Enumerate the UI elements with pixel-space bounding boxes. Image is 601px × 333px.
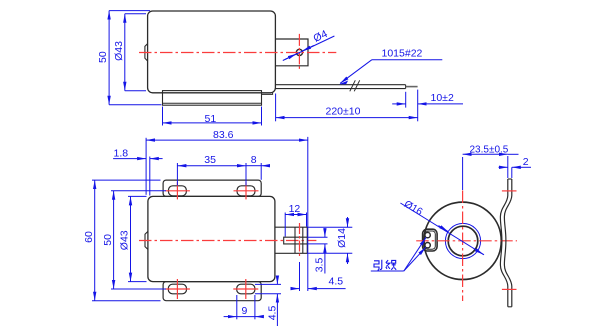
dimension 4.5 (flange slot) (255, 283, 281, 285)
plunger rear bump (top view) (145, 44, 148, 61)
inner hole circle (448, 226, 478, 256)
dimension 10+-2 (405, 92, 407, 108)
svg-text:8: 8 (251, 154, 257, 166)
bottom mounting flange (163, 282, 261, 301)
svg-text:50: 50 (97, 51, 109, 63)
solenoid body (top/side view) (148, 11, 276, 93)
stripped wire end (406, 86, 418, 88)
hole o4 (296, 49, 302, 55)
label yinxian (lead wires) (371, 270, 404, 272)
svg-text:83.6: 83.6 (213, 129, 234, 141)
top mounting flange (163, 180, 261, 196)
svg-text:51: 51 (205, 113, 217, 125)
dimension 3.5 (308, 236, 328, 238)
pin centerline vertical (299, 223, 301, 258)
svg-text:1015#22: 1015#22 (382, 48, 423, 60)
plunger rear bump (front view) (145, 231, 148, 249)
dimension 35 (176, 163, 178, 186)
dimension 2 (strip) (511, 167, 513, 178)
svg-text:12: 12 (289, 203, 301, 215)
wire break symbol (350, 80, 360, 91)
dimension o14 (308, 226, 353, 228)
dimension 51 (162, 107, 164, 126)
centerline horizontal (top view) (139, 52, 336, 54)
o16 dimension circle (blue) (445, 223, 480, 258)
svg-text:50: 50 (102, 234, 114, 246)
mounting slot bottom-left (168, 284, 186, 294)
mounting slot bottom-right (237, 284, 255, 294)
centerline vertical (end view) (462, 191, 464, 302)
plunger shaft (front view) (275, 227, 307, 253)
svg-text:9: 9 (242, 305, 248, 317)
svg-text:60: 60 (83, 231, 95, 243)
svg-text:4.5: 4.5 (266, 306, 278, 321)
svg-text:35: 35 (204, 154, 216, 166)
svg-text:Ø14: Ø14 (336, 228, 348, 248)
label o4 leader (283, 36, 335, 61)
body bottom step (262, 93, 273, 95)
svg-text:23.5±0.5: 23.5±0.5 (470, 144, 509, 155)
solenoid frame body (front view) (148, 196, 275, 281)
dimension 50 (front view) (111, 190, 166, 192)
through pin (front view) (294, 227, 296, 253)
dimension o43 (front view) (128, 195, 147, 197)
svg-text:10±2: 10±2 (431, 92, 454, 104)
centerline vertical through hole (298, 34, 300, 71)
svg-text:4.5: 4.5 (329, 275, 344, 287)
dimension 50 (top view) (109, 10, 150, 12)
svg-text:3.5: 3.5 (313, 258, 325, 273)
spring bracket strip (500, 179, 507, 307)
dimension o43 (top view) (125, 13, 146, 15)
centerline horizontal (end view) (416, 240, 517, 242)
svg-text:Ø43: Ø43 (113, 41, 125, 61)
svg-text:2: 2 (523, 156, 529, 168)
svg-text:1.8: 1.8 (114, 148, 129, 160)
mounting slot top-left (168, 186, 186, 196)
dimension 1.8 (149, 157, 151, 196)
label o16 (400, 203, 484, 255)
dimension 60 (92, 179, 161, 181)
dimension 23.5+-0.5 (462, 157, 464, 190)
dimension 220+-10 (275, 94, 277, 122)
wire grommet housing (423, 229, 438, 251)
strip centerline ticks (502, 190, 517, 192)
dimension 83.6 (145, 138, 147, 195)
lead wire circle 2 (425, 243, 430, 248)
dimension 9 (236, 295, 238, 319)
lead wire (top view) (275, 84, 405, 86)
base plate (top view) (163, 91, 262, 106)
centerline horizontal (front view) (139, 240, 316, 242)
shaft slot (284, 237, 308, 244)
lead wire circle 1 (425, 232, 430, 237)
dimension 12 (284, 213, 286, 237)
svg-text:220±10: 220±10 (326, 106, 361, 118)
svg-text:Ø43: Ø43 (119, 230, 131, 250)
end view outer circle (424, 202, 501, 279)
mounting slot top-right (237, 186, 255, 196)
dimension 4.5 (shaft) (299, 262, 301, 291)
dimension 8 (260, 163, 262, 180)
plunger head (top view) (275, 39, 308, 66)
